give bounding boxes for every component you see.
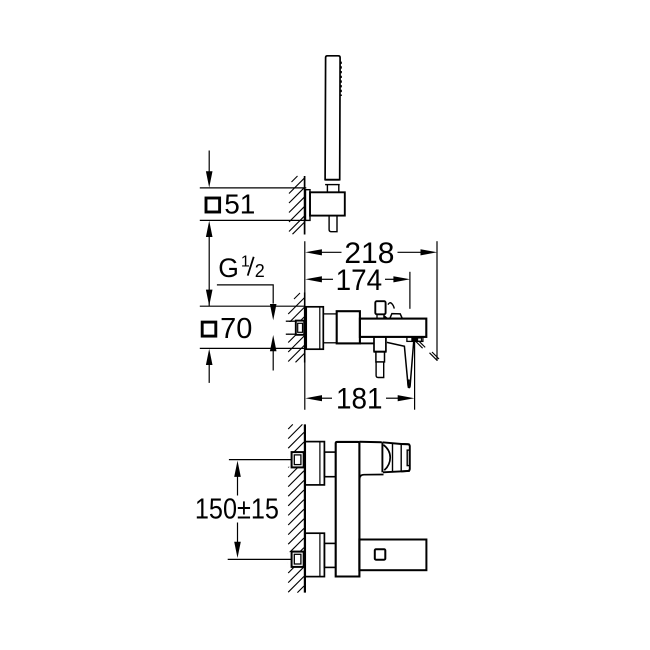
square symbol 70 bbox=[202, 322, 216, 336]
handle arm underside bbox=[360, 475, 384, 480]
hand shower band bbox=[325, 179, 340, 181]
neck middle view bbox=[323, 314, 336, 343]
holder outlet bbox=[329, 216, 337, 232]
svg-text:2: 2 bbox=[255, 261, 265, 281]
bottom pipe center line bbox=[228, 558, 292, 560]
svg-text:51: 51 bbox=[224, 189, 255, 220]
escutcheon middle view bbox=[306, 307, 323, 349]
dimension 181 extension line bbox=[414, 340, 416, 410]
dimension 218 line bbox=[321, 251, 342, 253]
outlet tube bbox=[376, 362, 384, 378]
G 1/2 leader line bbox=[217, 285, 273, 304]
wall line middle view bbox=[304, 293, 306, 363]
trapezoid bump bbox=[390, 314, 403, 319]
svg-text:181: 181 bbox=[336, 383, 383, 416]
knob stem bbox=[377, 314, 384, 318]
wall hatching front view bbox=[288, 424, 304, 592]
hand shower neck bbox=[326, 185, 328, 193]
outlet step bbox=[376, 352, 385, 362]
small wedge bbox=[384, 315, 388, 318]
dimension 181 line bbox=[321, 397, 332, 399]
handle slot bbox=[407, 450, 409, 466]
dimension 174 extension line bbox=[409, 272, 411, 309]
holder wall flange bbox=[306, 190, 311, 221]
svg-text:174: 174 bbox=[336, 264, 383, 297]
under-barrel collar bbox=[360, 342, 374, 344]
motion tick pair 2 bbox=[430, 353, 437, 360]
motion tick pair 1 bbox=[416, 342, 423, 349]
diverter housing block bbox=[374, 337, 386, 352]
spout front view bbox=[359, 540, 426, 571]
dashed motion arc bbox=[388, 303, 394, 309]
top nut bbox=[288, 453, 296, 467]
holder body bbox=[310, 192, 345, 215]
dimension sq70 extension lines bbox=[200, 305, 305, 307]
wall line top view bbox=[304, 176, 306, 235]
dimension 218 extension lines bbox=[304, 241, 306, 410]
dimension sq70 arrows bbox=[206, 290, 213, 306]
bottom escutcheon bbox=[305, 533, 324, 576]
diverter square button bbox=[375, 549, 386, 560]
bottom nut bbox=[288, 552, 296, 566]
cartridge body bbox=[337, 311, 360, 343]
dimension sq51 dim line and arrows bbox=[208, 151, 210, 173]
handle arm top edge bbox=[359, 441, 382, 444]
top escutcheon bbox=[305, 442, 324, 485]
dimension 174 line bbox=[321, 278, 333, 280]
wall hatching top view bbox=[289, 176, 304, 234]
spout barrel bbox=[360, 319, 426, 337]
top pipe center line bbox=[229, 459, 293, 461]
svg-text:G: G bbox=[218, 253, 239, 283]
wall hatching middle view bbox=[288, 293, 304, 362]
body front view bbox=[336, 442, 360, 577]
dimension 150 line and arrows bbox=[237, 476, 239, 496]
svg-text:1: 1 bbox=[241, 253, 250, 270]
top cylinder bbox=[324, 452, 335, 477]
lever arm and blade bbox=[387, 342, 414, 388]
lever pivot bbox=[407, 337, 423, 342]
handle head bbox=[381, 442, 383, 472]
supply pipe bbox=[286, 320, 296, 322]
bottom cylinder bbox=[324, 543, 335, 567]
dimension sq51 extension lines bbox=[200, 187, 306, 189]
handle right cap bbox=[401, 444, 410, 471]
hand shower stick bbox=[325, 56, 340, 180]
wall line front view bbox=[304, 424, 306, 592]
diverter knob bbox=[375, 301, 385, 314]
square symbol 51 bbox=[206, 198, 220, 212]
supply nut bbox=[286, 322, 296, 333]
svg-text:70: 70 bbox=[220, 313, 252, 345]
spray face dashed line bbox=[340, 62, 342, 96]
svg-text:150±15: 150±15 bbox=[195, 494, 279, 526]
